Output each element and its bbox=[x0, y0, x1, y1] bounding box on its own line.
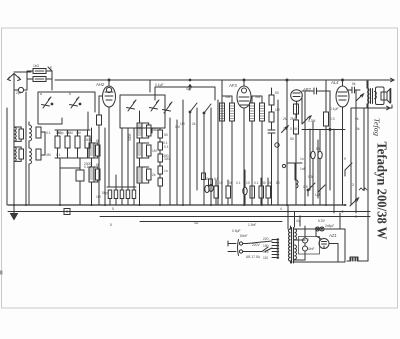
svg-text:Tefadyn 200/38 W: Tefadyn 200/38 W bbox=[374, 142, 389, 240]
switch S1 bbox=[190, 103, 197, 118]
wire caps chain bbox=[304, 232, 306, 260]
variable capacitor C1 bbox=[42, 97, 52, 108]
shield box oscillator bbox=[150, 80, 222, 128]
top rail bbox=[55, 79, 394, 81]
svg-text:1M: 1M bbox=[152, 149, 157, 153]
svg-text:0.1: 0.1 bbox=[236, 181, 241, 185]
wire plate supply bbox=[302, 129, 345, 131]
svg-text:50: 50 bbox=[155, 128, 159, 132]
resistor antenna series bbox=[33, 69, 46, 74]
svg-text:5: 5 bbox=[110, 223, 112, 227]
svg-text:50: 50 bbox=[205, 177, 209, 181]
svg-text:50: 50 bbox=[276, 181, 280, 185]
wires mains bbox=[228, 241, 272, 252]
detector junction bbox=[286, 79, 288, 81]
IF T1 winding a hatch bbox=[220, 106, 225, 119]
svg-text:0.1µF: 0.1µF bbox=[330, 107, 339, 111]
antenna A bbox=[8, 74, 21, 89]
tube AZ1 bbox=[319, 239, 329, 249]
svg-text:6.3V: 6.3V bbox=[318, 219, 326, 223]
resistor beside L2 bbox=[36, 149, 41, 160]
fuse F2 bbox=[320, 227, 324, 231]
arrow 4uF pointer bbox=[189, 85, 192, 90]
svg-text:4M: 4M bbox=[46, 153, 51, 157]
svg-text:50p: 50p bbox=[102, 191, 108, 195]
output transformer core bbox=[371, 89, 373, 104]
wire fuse to right bbox=[293, 229, 345, 262]
resistor R4 bbox=[65, 136, 70, 148]
svg-text:3k: 3k bbox=[152, 128, 156, 132]
svg-text:4: 4 bbox=[280, 207, 282, 211]
wire det out bbox=[302, 90, 313, 92]
mains plug bbox=[238, 240, 248, 256]
svg-text:50: 50 bbox=[290, 137, 294, 141]
wires heater risers bbox=[288, 205, 305, 232]
svg-text:5: 5 bbox=[112, 207, 114, 211]
wires IF transformers bbox=[222, 96, 262, 205]
svg-text:1nF: 1nF bbox=[300, 167, 306, 171]
switch S6 tone bbox=[350, 198, 359, 206]
svg-text:30k: 30k bbox=[255, 95, 261, 99]
band filter II box bbox=[120, 95, 165, 128]
svg-text:0.1: 0.1 bbox=[56, 153, 61, 157]
power transformer core bbox=[292, 228, 294, 264]
coil tone L5 bbox=[296, 180, 298, 205]
svg-text:0.1: 0.1 bbox=[46, 131, 51, 135]
bus 3 bbox=[100, 216, 370, 218]
speaker LS bbox=[376, 87, 391, 105]
wire stage2 verticals bbox=[105, 128, 152, 205]
grid capacitor C14 bbox=[347, 87, 360, 93]
resistor AH2 cathode bbox=[99, 96, 103, 205]
wire antenna down lead bbox=[13, 80, 15, 205]
coil L0a bbox=[14, 127, 16, 141]
resistor antenna shunt bbox=[33, 77, 46, 82]
resistor row R15 bbox=[120, 190, 124, 199]
capacitor stack C5 bbox=[158, 130, 163, 138]
resistor R4a bbox=[147, 125, 152, 136]
svg-text:50: 50 bbox=[164, 133, 168, 137]
power transformer secondary bottom bbox=[295, 245, 297, 259]
variable capacitor C3 bbox=[127, 100, 137, 111]
svg-text:0.1: 0.1 bbox=[164, 145, 169, 149]
wire mid verticals bbox=[170, 100, 218, 205]
power transformer primary bbox=[289, 229, 291, 261]
svg-text:0.5: 0.5 bbox=[303, 185, 308, 189]
switch S4 bbox=[318, 185, 325, 198]
wires bottom comps bbox=[216, 170, 268, 205]
trimmer circle B bbox=[282, 164, 285, 167]
svg-text:0.5: 0.5 bbox=[283, 127, 288, 131]
band filter I box bbox=[38, 92, 95, 124]
wire stage1 down bbox=[60, 112, 88, 205]
svg-text:220: 220 bbox=[263, 237, 269, 241]
tube AL4 bbox=[336, 79, 349, 205]
wires resistor row bbox=[55, 130, 90, 158]
capacitor stack C6 bbox=[158, 142, 163, 150]
svg-text:10: 10 bbox=[219, 181, 223, 185]
svg-text:9: 9 bbox=[344, 157, 346, 161]
fuse resistor bottom right bbox=[347, 257, 361, 261]
wires right of IF bbox=[272, 88, 279, 205]
output transformer T3 primary bbox=[367, 88, 369, 104]
svg-text:1M: 1M bbox=[180, 122, 185, 126]
switch S2 bbox=[204, 104, 211, 118]
resistor R0a bbox=[19, 129, 24, 139]
svg-text:1M: 1M bbox=[275, 108, 280, 112]
resistor R20 bbox=[259, 186, 264, 198]
coil L4b bbox=[137, 143, 142, 158]
svg-text:4µF: 4µF bbox=[186, 87, 192, 91]
tube AF3 bbox=[237, 79, 251, 205]
zigzag contact bbox=[359, 188, 367, 190]
wire avc link bbox=[60, 167, 80, 169]
coil L2 bbox=[29, 146, 32, 167]
resistor R17 bbox=[214, 186, 219, 198]
resistor R3a bbox=[96, 145, 101, 156]
wire det link bbox=[287, 162, 302, 164]
svg-text:50: 50 bbox=[275, 91, 279, 95]
switch S3 bbox=[308, 183, 315, 196]
svg-text:9k: 9k bbox=[355, 117, 359, 121]
svg-text:0.5M: 0.5M bbox=[290, 127, 298, 131]
IF T2 winding b hatch bbox=[260, 106, 265, 119]
svg-text:50: 50 bbox=[229, 181, 233, 185]
resistor R4c bbox=[147, 169, 152, 180]
wire coupling right bbox=[27, 67, 52, 90]
tone variable arrow bbox=[356, 94, 364, 101]
resistor row R14 bbox=[114, 190, 118, 199]
wires L3 stack bbox=[92, 128, 98, 205]
IF T1 winding b hatch bbox=[230, 106, 235, 119]
resistor row R16b bbox=[132, 190, 136, 199]
trimmer circle A bbox=[275, 143, 279, 147]
wires AZ1 bbox=[316, 229, 338, 262]
resistor beside L1 bbox=[36, 127, 41, 138]
wires resistor row 2 bbox=[107, 175, 136, 205]
coil L1 bbox=[29, 122, 32, 144]
svg-text:2pF: 2pF bbox=[16, 91, 22, 95]
svg-text:50p: 50p bbox=[58, 131, 64, 135]
fuse F1 bbox=[316, 227, 320, 231]
svg-text:1kΩ: 1kΩ bbox=[33, 64, 39, 68]
variable capacitor C2 bbox=[70, 97, 80, 108]
bottom line end arrow bbox=[387, 106, 391, 110]
resistor R18 bbox=[226, 186, 231, 198]
wire AVC left bbox=[6, 108, 8, 205]
inner box top bbox=[155, 87, 215, 100]
triode symbol mixer bbox=[163, 102, 173, 113]
resistor R8 bbox=[269, 95, 274, 105]
coil L4a bbox=[137, 123, 142, 138]
resistor stack R7b bbox=[158, 178, 163, 186]
wire right verticals bbox=[295, 81, 368, 261]
svg-text:3000: 3000 bbox=[128, 133, 132, 141]
wires transformer top bbox=[288, 205, 316, 263]
capacitor C9 bbox=[209, 184, 213, 191]
svg-text:300: 300 bbox=[164, 157, 170, 161]
svg-text:2000: 2000 bbox=[84, 138, 92, 142]
svg-text:0.3: 0.3 bbox=[330, 117, 335, 121]
svg-text:60nF: 60nF bbox=[307, 247, 315, 251]
wire C16 bbox=[79, 158, 81, 205]
svg-text:0.3M: 0.3M bbox=[308, 119, 316, 123]
IF transformer T1 winding a bbox=[220, 103, 225, 121]
wire det components bbox=[295, 114, 297, 205]
resistor R21 bbox=[266, 186, 271, 198]
svg-text:220V: 220V bbox=[252, 243, 261, 247]
capacitor C12 bbox=[311, 151, 315, 159]
capacitor C10 bbox=[268, 130, 275, 133]
resistor row R13 bbox=[108, 190, 112, 199]
svg-text:AB 17.5A: AB 17.5A bbox=[246, 255, 261, 259]
IF transformer T2 winding b bbox=[260, 103, 265, 121]
svg-text:2M: 2M bbox=[283, 117, 288, 121]
svg-text:0.1µF: 0.1µF bbox=[84, 165, 93, 169]
resistor row R16 bbox=[126, 190, 130, 199]
voltage taps bbox=[272, 240, 277, 258]
wire detector drop bbox=[286, 80, 288, 205]
svg-text:AL4: AL4 bbox=[330, 80, 339, 85]
capacitor C20 bbox=[202, 173, 206, 180]
resistor R4b bbox=[147, 145, 152, 156]
capacitor C13 bbox=[318, 151, 322, 159]
wires stack bbox=[159, 128, 161, 205]
rail end arrow bbox=[391, 78, 395, 82]
bus 2 bbox=[8, 211, 370, 213]
svg-text:2k: 2k bbox=[268, 181, 272, 185]
wires L4 stack bbox=[140, 111, 149, 205]
ground main bbox=[13, 205, 15, 215]
svg-text:1M: 1M bbox=[96, 195, 101, 199]
svg-text:1n: 1n bbox=[300, 157, 304, 161]
wire bottom right loop bbox=[340, 213, 368, 261]
svg-text:UT: UT bbox=[315, 192, 321, 197]
wire speaker bottom bbox=[351, 105, 392, 205]
wires output transformer bbox=[367, 81, 376, 108]
svg-text:b: b bbox=[69, 92, 71, 96]
svg-text:5k: 5k bbox=[96, 139, 100, 143]
tube AH2 bbox=[103, 79, 116, 187]
svg-text:5k: 5k bbox=[352, 82, 356, 86]
svg-text:30k: 30k bbox=[225, 95, 231, 99]
svg-text:AF3: AF3 bbox=[228, 83, 237, 88]
resistor R0b bbox=[19, 149, 24, 159]
capacitor C8 bbox=[205, 185, 209, 192]
power transformer secondary top bbox=[295, 229, 297, 240]
capacitor input bbox=[18, 87, 23, 92]
capacitor C16 bbox=[76, 170, 84, 181]
svg-text:AZ1: AZ1 bbox=[328, 233, 337, 238]
svg-text:2M: 2M bbox=[290, 117, 295, 121]
IF transformer T2 winding a bbox=[250, 103, 255, 121]
capacitor C11 bbox=[314, 88, 330, 94]
capacitor C18 electrolytic bbox=[303, 238, 308, 243]
svg-text:Tefag: Tefag bbox=[373, 118, 381, 137]
resistor R12 bbox=[324, 112, 329, 126]
svg-text:5k: 5k bbox=[356, 127, 360, 131]
wire pot bbox=[304, 92, 306, 205]
tiny value labels bbox=[16, 64, 360, 260]
wire to AF grid bbox=[329, 91, 331, 190]
wire L1-L2 bbox=[26, 92, 45, 205]
resistor R11 bbox=[294, 120, 299, 134]
capacitor C19 electrolytic bbox=[303, 246, 308, 251]
resistor R3b bbox=[96, 169, 101, 180]
wire R12 bbox=[325, 80, 327, 205]
svg-text:5k: 5k bbox=[96, 163, 100, 167]
variable capacitor C4 bbox=[150, 100, 160, 111]
tube AB2 bbox=[291, 90, 303, 118]
trimmer arrow bbox=[282, 126, 289, 133]
svg-text:0.5: 0.5 bbox=[308, 175, 313, 179]
resistor stack R7 bbox=[158, 166, 163, 174]
wire out stage bbox=[355, 90, 357, 213]
svg-text:125: 125 bbox=[263, 250, 269, 254]
svg-text:1M: 1M bbox=[76, 131, 81, 135]
svg-text:0.1µF: 0.1µF bbox=[155, 83, 164, 87]
svg-text:2k: 2k bbox=[192, 122, 196, 126]
volume potentiometer arrow bbox=[302, 116, 311, 124]
filter section box bbox=[299, 237, 320, 255]
capacitor C17 bbox=[243, 187, 247, 195]
capacitor C21 bbox=[209, 179, 213, 186]
IF T2 winding a hatch bbox=[250, 106, 255, 119]
coil L3a bbox=[89, 143, 94, 158]
resistor R19 bbox=[250, 186, 255, 198]
bus 4 bbox=[140, 221, 282, 223]
svg-text:4Ω: 4Ω bbox=[194, 221, 199, 225]
switch S5 bbox=[345, 163, 352, 176]
switch mains bbox=[262, 247, 268, 252]
svg-text:0.5µF: 0.5µF bbox=[232, 229, 241, 233]
output transformer secondary bbox=[375, 92, 377, 99]
resistor R5 bbox=[75, 136, 80, 148]
svg-text:10: 10 bbox=[246, 181, 250, 185]
wires caps bbox=[313, 122, 320, 205]
resistor R6 bbox=[85, 136, 90, 148]
coil L0b bbox=[14, 147, 16, 161]
resistor R10 bbox=[294, 104, 299, 114]
svg-text:3: 3 bbox=[307, 238, 309, 242]
wire antenna to coupling bbox=[14, 71, 31, 73]
svg-text:1M: 1M bbox=[68, 131, 73, 135]
node dots filter I bbox=[51, 103, 53, 105]
capacitor C15 on bus bbox=[64, 209, 70, 215]
svg-text:60nF: 60nF bbox=[240, 234, 248, 238]
svg-text:0.5: 0.5 bbox=[214, 177, 219, 181]
svg-text:3: 3 bbox=[352, 183, 354, 187]
svg-text:2k: 2k bbox=[152, 173, 156, 177]
capacitor stack C7 bbox=[158, 154, 163, 162]
svg-text:1n: 1n bbox=[164, 169, 168, 173]
svg-text:0.1: 0.1 bbox=[254, 181, 259, 185]
resistor R9 bbox=[269, 112, 274, 122]
svg-text:110: 110 bbox=[263, 256, 268, 260]
resistor R3 bbox=[55, 136, 60, 148]
coil L4c bbox=[137, 167, 142, 183]
svg-text:a: a bbox=[40, 92, 42, 96]
bus 1 bbox=[8, 204, 346, 206]
svg-text:50: 50 bbox=[316, 147, 320, 151]
svg-text:2x8µF: 2x8µF bbox=[325, 224, 334, 228]
IF transformer T1 winding b bbox=[230, 103, 235, 121]
svg-text:50: 50 bbox=[262, 181, 266, 185]
svg-text:1.5nF: 1.5nF bbox=[248, 223, 256, 227]
svg-text:150: 150 bbox=[263, 244, 269, 248]
coil L3b bbox=[89, 167, 94, 182]
svg-text:AH2: AH2 bbox=[95, 82, 105, 87]
